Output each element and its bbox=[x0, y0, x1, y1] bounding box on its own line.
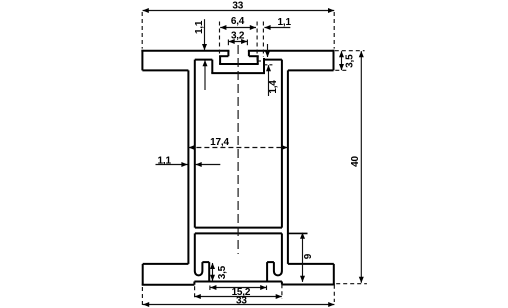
svg-text:40: 40 bbox=[350, 156, 361, 167]
svg-text:33: 33 bbox=[236, 295, 247, 306]
svg-text:3,2: 3,2 bbox=[231, 31, 245, 42]
svg-text:1,1: 1,1 bbox=[158, 155, 172, 166]
svg-text:6,4: 6,4 bbox=[231, 16, 245, 27]
svg-text:3,5: 3,5 bbox=[217, 265, 228, 279]
svg-text:9: 9 bbox=[303, 253, 314, 259]
svg-text:33: 33 bbox=[232, 0, 243, 11]
svg-text:3,5: 3,5 bbox=[345, 54, 356, 68]
svg-text:1,4: 1,4 bbox=[268, 80, 279, 94]
svg-text:17,4: 17,4 bbox=[210, 137, 229, 148]
svg-text:1,1: 1,1 bbox=[194, 20, 205, 34]
svg-text:1,1: 1,1 bbox=[278, 17, 292, 28]
